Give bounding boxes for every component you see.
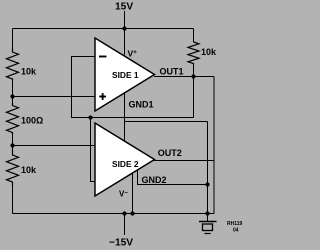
ground symbol bbox=[199, 222, 217, 234]
resistor R4 10k (top right pull-up) bbox=[188, 42, 199, 65]
wire OUT1 row bbox=[154, 76, 214, 78]
resistor R3 10k (left bottom) bbox=[7, 150, 19, 186]
svg-text:OUT2: OUT2 bbox=[158, 148, 182, 158]
junction GND2 row bbox=[205, 182, 209, 186]
wire SIDE1 plus input bbox=[13, 96, 96, 98]
wire -15V drop bbox=[124, 214, 126, 236]
wire GND1 pin and row bbox=[123, 93, 125, 141]
input symbols SIDE2 bbox=[99, 146, 107, 185]
junction V- pin on rail bbox=[130, 211, 134, 215]
resistor R1 10k (left top) bbox=[7, 48, 19, 80]
junction bottom rail ground bbox=[205, 211, 209, 215]
wire SIDE2 plus branch bbox=[91, 118, 96, 182]
junction OUT1 bbox=[191, 74, 195, 78]
junction dot top rail bbox=[122, 26, 126, 30]
svg-text:10k: 10k bbox=[21, 165, 37, 175]
wire V- pin SIDE2 bbox=[132, 173, 134, 214]
wire 15V drop to V+ pin bbox=[124, 11, 126, 56]
wire top-right resistor stub top bbox=[193, 29, 195, 43]
svg-text:15V: 15V bbox=[115, 2, 133, 13]
wire OUT2 row bbox=[154, 160, 214, 162]
svg-text:10k: 10k bbox=[201, 47, 217, 57]
svg-text:SIDE 1: SIDE 1 bbox=[112, 70, 139, 80]
resistor R2 100ohm (left middle) bbox=[7, 103, 19, 135]
wire top-right resistor stub bottom bbox=[193, 65, 195, 77]
wire left vertical bbox=[12, 29, 14, 53]
svg-text:10k: 10k bbox=[21, 67, 37, 77]
wire ground vertical bbox=[207, 122, 209, 222]
wire GND2 pin and row bbox=[138, 171, 208, 185]
junction node B bbox=[10, 143, 14, 147]
svg-text:100Ω: 100Ω bbox=[21, 116, 43, 126]
wire OUT1 to OUT2 tie vertical bbox=[213, 77, 215, 214]
op-amp U1 SIDE 1 bbox=[95, 38, 155, 111]
op-amp U2 SIDE 2 bbox=[95, 123, 155, 196]
wire OUT1 down to feedback row bbox=[193, 77, 195, 118]
junction node A bbox=[10, 94, 14, 98]
svg-text:GND1: GND1 bbox=[129, 100, 154, 110]
junction feedback row bbox=[88, 115, 92, 119]
wire SIDE1 minus input L-path bbox=[72, 57, 194, 118]
junction -15V bbox=[122, 211, 126, 215]
svg-text:GND2: GND2 bbox=[142, 175, 167, 185]
svg-text:−15V: −15V bbox=[109, 238, 133, 249]
wire SIDE2 minus input bbox=[13, 145, 96, 147]
svg-text:RH119: RH119 bbox=[227, 221, 243, 227]
svg-text:SIDE 2: SIDE 2 bbox=[112, 159, 139, 169]
svg-text:04: 04 bbox=[233, 228, 239, 234]
wire bottom rail bbox=[13, 213, 215, 215]
wire top rail bbox=[13, 28, 194, 30]
svg-text:OUT1: OUT1 bbox=[160, 67, 184, 77]
input symbols SIDE1 bbox=[99, 57, 107, 100]
